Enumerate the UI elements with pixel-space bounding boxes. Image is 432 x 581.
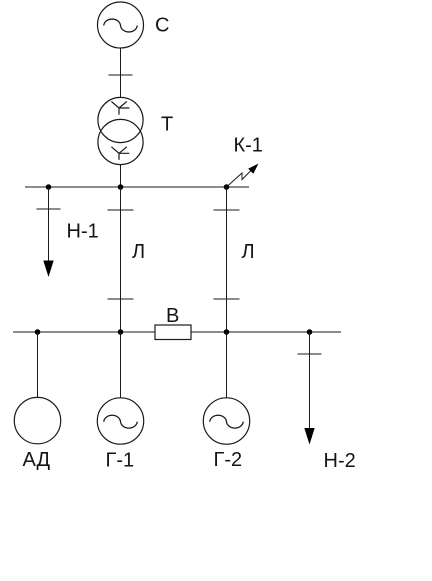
node dot lower bus far left (AD tap) — [35, 329, 41, 335]
lower busbar — [13, 331, 341, 333]
load H-2 feeder wire — [309, 332, 311, 430]
reactor B rectangle — [155, 325, 191, 340]
fault arrow K-1 (lightning) — [227, 169, 253, 187]
transformer T upper winding circle — [98, 97, 143, 142]
load arrow H-1 — [43, 261, 53, 278]
sine symbol inside G-2 — [210, 415, 244, 428]
line L left wire — [120, 187, 122, 332]
sine symbol inside G-1 — [104, 415, 138, 428]
breaker tick on H-1 feeder — [37, 208, 61, 210]
generator G-2 circle — [203, 398, 249, 444]
breaker tick on C-T wire — [109, 74, 133, 76]
line L right wire — [226, 187, 228, 332]
motor AD circle — [14, 397, 60, 443]
sine symbol inside source C — [104, 19, 138, 32]
breaker tick bottom of right line L — [214, 298, 240, 300]
star (wye) symbol in upper winding — [111, 102, 129, 115]
svg-text:АД: АД — [23, 449, 51, 471]
breaker tick bottom of left line L — [108, 298, 134, 300]
svg-text:Г-1: Г-1 — [106, 450, 135, 472]
svg-text:Н-1: Н-1 — [67, 221, 99, 243]
svg-text:Т: Т — [161, 114, 173, 136]
transformer T lower winding circle — [98, 119, 143, 164]
breaker tick on H-2 feeder — [298, 353, 322, 355]
fault arrowhead K-1 — [248, 164, 258, 174]
node dot lower bus (G-1 tap) — [118, 329, 124, 335]
node dot lower bus (G-2 tap) — [224, 329, 230, 335]
node dot upper bus center (T tap) — [118, 184, 124, 190]
svg-text:Н-2: Н-2 — [324, 450, 356, 472]
wire from C to breaker tick — [120, 48, 122, 98]
node dot upper bus left (H-1 tap) — [46, 184, 52, 190]
upper busbar — [25, 186, 249, 188]
svg-text:В: В — [166, 305, 179, 327]
source G1 (system C) circle — [98, 2, 144, 48]
load H-1 feeder wire — [48, 187, 50, 262]
generator G-1 circle — [97, 398, 143, 444]
svg-text:С: С — [155, 15, 169, 37]
wire from T to upper busbar — [120, 165, 122, 188]
generator G-2 feeder wire — [226, 332, 228, 398]
node dot lower bus right (H-2 tap) — [307, 329, 313, 335]
load arrow H-2 — [304, 428, 314, 445]
svg-text:Л: Л — [242, 241, 255, 263]
star (wye) symbol in lower winding — [111, 147, 129, 160]
generator G-1 feeder wire — [120, 332, 122, 398]
breaker tick top of right line L — [214, 209, 240, 211]
node dot upper bus right (K-1 / line tap) — [224, 184, 230, 190]
svg-text:К-1: К-1 — [234, 135, 263, 157]
motor AD feeder wire — [37, 332, 39, 397]
svg-text:Г-2: Г-2 — [214, 449, 243, 471]
breaker tick top of left line L — [108, 209, 134, 211]
svg-text:Л: Л — [132, 241, 145, 263]
